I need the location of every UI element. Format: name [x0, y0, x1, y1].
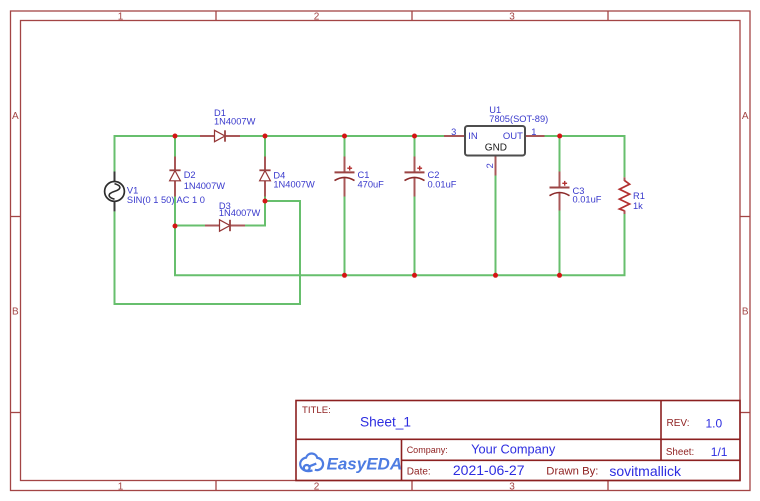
junction C1 bottom: [342, 273, 347, 278]
wire top rail U1 pin1 to R1 corner: [545, 136, 625, 177]
svg-text:1N4007W: 1N4007W: [184, 181, 226, 191]
junction D2 anode / D3 node: [173, 224, 178, 229]
svg-text:3: 3: [509, 482, 515, 493]
svg-text:1: 1: [531, 127, 536, 137]
frame tick top 2: [411, 11, 413, 21]
frame tick bottom 3: [607, 481, 609, 491]
title block logo cell divider: [401, 439, 403, 480]
svg-text:TITLE:: TITLE:: [302, 405, 331, 416]
wire C2 bottom: [414, 197, 416, 277]
svg-text:3: 3: [451, 127, 456, 137]
svg-text:C2: C2: [428, 170, 440, 180]
frame tick left B/C: [11, 412, 21, 414]
svg-text:R1: R1: [633, 191, 645, 201]
svg-text:IN: IN: [468, 131, 478, 142]
svg-text:7805(SOT-89): 7805(SOT-89): [489, 114, 548, 124]
wire bottom ground rail: [175, 214, 625, 275]
wire C3 bottom: [559, 211, 561, 277]
svg-text:2: 2: [314, 482, 320, 493]
diode D2: [169, 157, 180, 197]
svg-text:1: 1: [118, 482, 124, 493]
junction C2 bottom: [412, 273, 417, 278]
capacitor C3: [550, 172, 570, 211]
svg-text:Date:: Date:: [407, 466, 431, 477]
svg-text:1.0: 1.0: [706, 417, 723, 431]
frame tick top 3: [607, 11, 609, 21]
junction C3 bottom: [557, 273, 562, 278]
svg-text:1N4007W: 1N4007W: [214, 117, 256, 127]
svg-text:1k: 1k: [633, 201, 643, 211]
junction node A top of D2: [173, 134, 178, 139]
svg-text:2021-06-27: 2021-06-27: [453, 462, 525, 478]
svg-text:1: 1: [118, 11, 124, 22]
svg-text:OUT: OUT: [503, 131, 523, 142]
svg-text:1N4007W: 1N4007W: [273, 180, 315, 190]
svg-text:470uF: 470uF: [358, 180, 385, 190]
diode D4: [259, 157, 270, 197]
svg-text:A: A: [12, 111, 19, 122]
AC source V1: [105, 172, 125, 212]
wire C2 top: [414, 135, 416, 157]
resistor R1: [619, 177, 629, 214]
svg-text:A: A: [742, 111, 749, 122]
frame tick top 1: [215, 11, 217, 21]
wire D4 top to positive rail: [264, 135, 266, 157]
svg-text:D2: D2: [184, 170, 196, 180]
frame tick right B/C: [740, 412, 750, 414]
title block rev column divider: [660, 401, 662, 461]
svg-text:SIN(0 1 50) AC 1 0: SIN(0 1 50) AC 1 0: [127, 195, 205, 205]
wire D4 bottom to AC2 node: [264, 197, 266, 203]
svg-text:2: 2: [314, 11, 320, 22]
svg-text:Company:: Company:: [407, 445, 448, 455]
junction C2 top: [412, 134, 417, 139]
wire V1 bottom loop to bridge AC2: [115, 201, 301, 304]
frame tick left A/B: [11, 216, 21, 218]
svg-text:GND: GND: [485, 142, 507, 153]
svg-text:C1: C1: [358, 170, 370, 180]
diode D3: [205, 220, 245, 231]
svg-text:2: 2: [485, 163, 495, 168]
wire D3 cathode up to AC2 node: [245, 200, 265, 226]
frame tick bottom 1: [215, 481, 217, 491]
svg-text:Your Company: Your Company: [471, 442, 556, 457]
wire D3 anode from negative node: [175, 225, 205, 227]
wire C3 top: [559, 135, 561, 172]
frame tick bottom 2: [411, 481, 413, 491]
junction C1 top: [342, 134, 347, 139]
svg-text:Drawn By:: Drawn By:: [546, 466, 598, 478]
wire D2 anode down: [174, 197, 176, 228]
title block row divider 2: [402, 459, 741, 461]
svg-text:B: B: [742, 307, 749, 318]
wire top rail D1 cathode to U1 pin3: [240, 135, 444, 137]
regulator U1 7805: [444, 126, 545, 176]
wire top-left from V1 to D1: [115, 136, 201, 172]
wire C1 bottom: [344, 197, 346, 277]
svg-text:REV:: REV:: [667, 418, 690, 429]
wire D2 top to node A: [174, 135, 176, 157]
capacitor C2: [405, 157, 425, 197]
svg-text:sovitmallick: sovitmallick: [609, 463, 682, 479]
wire C1 top: [344, 135, 346, 157]
diode D1: [200, 130, 240, 141]
svg-text:Sheet_1: Sheet_1: [360, 415, 411, 430]
EasyEDA logo cloud: [300, 453, 323, 471]
svg-text:1/1: 1/1: [711, 445, 728, 459]
junction U1 output node: [557, 134, 562, 139]
wire U1 pin2 down to ground rail: [495, 176, 497, 277]
title block outline: [296, 401, 740, 481]
svg-text:3: 3: [509, 11, 515, 22]
svg-text:B: B: [12, 307, 19, 318]
junction U1 pin2 ground: [493, 273, 498, 278]
svg-text:1N4007W: 1N4007W: [219, 208, 261, 218]
junction positive node top of D4: [263, 134, 268, 139]
title block row divider 1: [296, 438, 740, 440]
svg-text:EasyEDA: EasyEDA: [327, 455, 403, 474]
capacitor C1: [335, 157, 355, 197]
junction AC2 node D4 anode: [263, 199, 268, 204]
svg-text:0.01uF: 0.01uF: [428, 180, 457, 190]
frame tick right A/B: [740, 216, 750, 218]
svg-text:0.01uF: 0.01uF: [573, 194, 602, 204]
svg-text:Sheet:: Sheet:: [666, 447, 694, 458]
